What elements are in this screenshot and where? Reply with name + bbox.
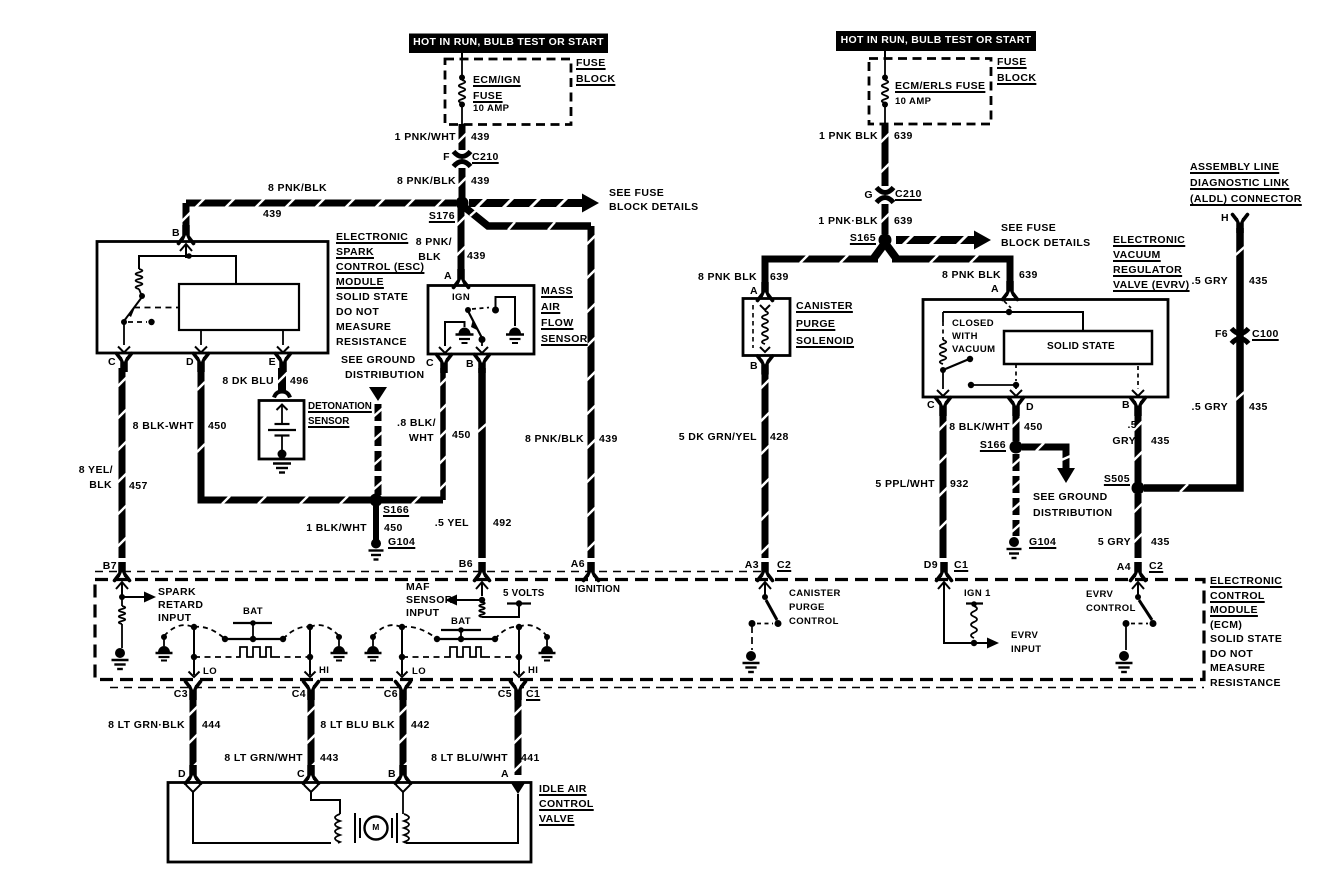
connector C below MAF (437, 355, 452, 374)
wire 8 BLK/WHT 450 from ESC D to S166 (197, 368, 443, 504)
label .5 YEL 492 (435, 518, 469, 530)
label IGN inside MAF (452, 293, 470, 303)
EVRV wire pivot to C pin (942, 372, 944, 389)
wire .5 GRY 435 EVRV B to S505 (1134, 412, 1143, 483)
IAC D entry arrow (186, 785, 200, 792)
wire 8 PNK/BLK 439 ignition vertical to A6 (587, 226, 596, 558)
wire S505 to ALDL connector (1144, 228, 1245, 492)
label 439 below wire (263, 209, 282, 221)
detonation sensor capacitor symbol (277, 405, 288, 411)
label .5 GRY 435 lower aldl (1192, 402, 1228, 414)
EVRV internal entry dash (1004, 301, 1011, 308)
connector A at EVRV (1003, 281, 1018, 300)
ground G104 right (1009, 537, 1019, 547)
see fuse block details arrow left (469, 194, 599, 213)
label G104 right (1029, 537, 1056, 549)
canister purge solenoid coil (760, 305, 770, 310)
see ground distribution branch right (1022, 443, 1071, 468)
group1 LO line (191, 624, 197, 630)
labels C D E under ESC (108, 357, 116, 369)
connector B7 at ECM (115, 562, 130, 581)
label A4 C2 (1117, 562, 1131, 574)
label F6 C100 (1215, 329, 1228, 341)
label B at ESC (172, 228, 180, 240)
ECM winding group1 right ground bell (331, 634, 348, 661)
splice S165 (879, 234, 892, 247)
label G C210 (864, 190, 873, 202)
label SEE FUSE BLOCK DETAILS right (1001, 223, 1056, 235)
label 1 PNK BLK 639 (819, 131, 878, 143)
wire .8 BLK/WHT 450 from MAF C down to S166 run (439, 368, 447, 500)
label 8 PNK BLK 639 canister (698, 272, 757, 284)
label ECM/IGN FUSE 10 AMP (473, 75, 521, 87)
EVRV internal node dot (1006, 309, 1012, 315)
fuse block box left (dashed) (445, 59, 571, 125)
MAF sensor box (428, 286, 534, 355)
IAC motor (365, 817, 388, 840)
ESC internal node dot (186, 253, 192, 259)
label 1 PNK BLK 639 second (818, 216, 878, 228)
power feed banner HOT IN RUN left (409, 34, 608, 54)
connector E below ESC (276, 354, 291, 373)
ESC pin E lead (282, 330, 284, 345)
connector A4 at ECM (1131, 562, 1146, 581)
IAC internal wire D to left coil (193, 792, 331, 843)
ESC internal wire to resistor (139, 256, 189, 269)
ECM A3 entry arrow (759, 582, 771, 596)
see fuse block details arrow right (896, 231, 991, 250)
label CLOSED WITH VACUUM (952, 319, 994, 329)
label SEE GROUND DISTRIBUTION right (1033, 492, 1108, 504)
label H at ALDL (1221, 213, 1229, 225)
label HI group1 (319, 666, 329, 676)
label LO group2 (412, 667, 426, 677)
ground distribution dashed hatched wire to S166 (374, 404, 383, 421)
connector B below MAF (475, 355, 490, 374)
ECM winding group2 right ground bell (539, 634, 556, 661)
label G104 left (388, 537, 415, 549)
label B7 (103, 561, 117, 573)
EVRV internal resistor (940, 340, 946, 364)
group2 BAT tap (460, 630, 462, 639)
IAC A entry arrow (solid) (511, 783, 525, 794)
label D at IAC (178, 769, 186, 781)
label B at IAC (388, 769, 396, 781)
ECM winding group2 left ground bell (365, 634, 382, 661)
wire 1 PNK BLK 639 below fuse (881, 124, 890, 186)
group2 LO line (399, 624, 405, 630)
wire 8 LT BLU BLK 442 C6 to IAC B (399, 697, 408, 772)
see ground distribution triangle arrow (left) (369, 387, 387, 401)
group2 arc right (519, 625, 547, 636)
wire 8 PNK BLK 639 to EVRV (892, 255, 1010, 285)
EVRV control switch arm (1139, 600, 1152, 620)
label 8 BLK-WHT 450 (133, 421, 194, 433)
label 5 PPL/WHT 932 (875, 479, 935, 491)
EVRV internal D leg dashed (1015, 364, 1017, 381)
label 1 BLK/WHT 450 (306, 523, 367, 535)
splice S166 left (370, 494, 383, 507)
group1 arc from bat bar right (283, 627, 310, 639)
ground G104 left (371, 539, 381, 549)
wire 1 BLK/WHT 450 S166 to G104 (373, 503, 379, 540)
IAC motor brushes right (391, 818, 393, 838)
connector C4 below ECM (304, 682, 319, 701)
label 1 PNK/WHT 439 (395, 132, 456, 144)
connector B below EVRV (1131, 398, 1146, 417)
label A at IAC (501, 769, 509, 781)
label C3 (174, 689, 188, 701)
label 8 PNK/BLK above wire (268, 183, 327, 195)
label FUSE BLOCK right (997, 57, 1027, 69)
label C6 (384, 689, 398, 701)
connector cup at detonation sensor (274, 392, 290, 398)
connector C5 below ECM (511, 682, 526, 701)
label FUSE BLOCK left (576, 58, 606, 70)
connector C210 left (F) (454, 152, 471, 167)
ESC module box (97, 242, 328, 354)
ALDL name text (1190, 162, 1279, 174)
wire banner to fuse block (461, 53, 463, 60)
ECM D9 lead to EVRV input (944, 594, 990, 643)
label BAT group1 (243, 607, 263, 617)
IAC motor brushes left (354, 813, 356, 843)
connector B at ESC module (179, 225, 194, 244)
label 8 LT BLU BLK 442 (320, 720, 395, 732)
ECM A4 entry arrow (1132, 582, 1144, 596)
Y split wires from S165 (874, 243, 885, 258)
label 5 GRY 435 (1098, 537, 1131, 549)
connector D below ESC (194, 354, 209, 373)
wire corner into ESC B (182, 203, 191, 226)
group1 HI line (307, 624, 313, 630)
label C4 (292, 689, 306, 701)
canister purge control switch arm (766, 600, 777, 620)
ESC switch arm (124, 297, 142, 321)
group1 dashed winding line with pulse (194, 656, 236, 658)
label IGNITION (575, 585, 620, 596)
labels C B under MAF (426, 358, 434, 370)
ECM D9 entry arrow (938, 582, 950, 596)
label SOLID STATE inside EVRV (1047, 341, 1115, 352)
IAC internal wire C to left coil top (311, 792, 340, 814)
canister purge control ground lead (751, 626, 753, 650)
splice S166 right (1010, 441, 1023, 454)
label .5 GRY 435 upper aldl (1192, 276, 1228, 288)
wire 8 PNK/BLK 439 to ESC module (horizontal) (186, 199, 456, 208)
label HI group2 (528, 666, 538, 676)
wire 1 PNK/WHT 439 (458, 124, 467, 150)
splice S176 (456, 197, 469, 210)
wire 8 LT GRN/WHT 443 C4 to IAC C (307, 697, 316, 772)
ECM winding group1 left ground bell (156, 634, 173, 661)
connector C100 (F6) (1232, 329, 1249, 344)
wire 8 LT BLU/WHT 441 C5 to IAC A (514, 697, 523, 775)
ESC solid state inner box (179, 284, 299, 330)
connector C3 below ECM (186, 682, 201, 701)
label 8 YEL/BLK 457 (79, 465, 113, 477)
label 8 PNK/BLK 439 (397, 176, 456, 188)
IAC internal wire A to right coil (406, 794, 518, 843)
label MAF SENSOR INPUT (406, 582, 430, 594)
label 8 PNK/BLK 439 ignition wire (525, 434, 584, 446)
EVRV name text (1113, 235, 1185, 247)
detonation sensor ground (273, 462, 291, 464)
label 8 BLK/WHT 450 right (949, 422, 1010, 434)
ECM box dashed border (95, 580, 1204, 680)
label 8 LT GRN/WHT 443 (224, 753, 303, 765)
label D9 C1 (924, 560, 938, 572)
MAF internal switch pivot dot (465, 307, 471, 313)
fuse ECM/ERLS symbol (884, 59, 886, 75)
IAC valve box (168, 783, 531, 863)
label ECM/ERLS FUSE 10 AMP (895, 81, 985, 93)
label BAT group2 (451, 617, 471, 627)
label 8 PNK/ BLK 439 to MAF (416, 237, 452, 249)
label CANISTER PURGE SOLENOID (796, 301, 853, 313)
banner text right (841, 35, 1032, 47)
connector A6 at ECM (584, 562, 599, 581)
canister purge solenoid box (743, 299, 790, 356)
EVRV internal left leg (942, 312, 944, 322)
ESC switch fixed contact (128, 321, 147, 323)
label A at canister purge (750, 286, 758, 298)
connector B below canister purge (758, 356, 773, 375)
connector C below EVRV (936, 398, 951, 417)
EVRV internal B leg dashed (1137, 366, 1139, 389)
group1 bat bar line (225, 638, 283, 640)
ESC internal entry arrow (180, 244, 192, 258)
label A at EVRV (991, 284, 999, 296)
wire .5 YEL 492 MAF B to ECM B6 (478, 368, 486, 558)
wire 5 PPL/WHT 932 EVRV C to ECM D9 (939, 412, 948, 558)
ESC resistor bottom dot (139, 293, 145, 299)
IAC internal wire B to right coil (402, 792, 404, 814)
canister purge solenoid plunger dashed (752, 305, 754, 348)
ESC switch dashed actuator line (134, 307, 178, 309)
ALDL connector H (1233, 215, 1248, 234)
ECM name text block (1210, 576, 1282, 588)
group1 BAT tap (252, 623, 254, 639)
ESC pin D lead (200, 330, 202, 345)
connector C6 below ECM (396, 682, 411, 701)
label F C210 (443, 152, 450, 164)
wire 8 BLK/WHT 450 EVRV D to S166 (1012, 412, 1021, 441)
connector C210 right (G) (877, 188, 894, 203)
connector B6 at ECM (475, 562, 490, 581)
label SEE GROUND DISTRIBUTION left (341, 355, 416, 367)
wire 8 PNK/BLK 439 below C210 (458, 168, 467, 198)
wire banner to fuse block right (884, 51, 886, 59)
MAF internal right contact dot (492, 307, 499, 314)
resistor in ESC (136, 269, 143, 289)
wire 5 GRY 435 S505 to ECM A4 (1134, 494, 1143, 558)
group2 arc left (373, 625, 401, 636)
fuse ECM/IGN symbol (461, 60, 463, 75)
label B6 (459, 559, 473, 571)
canister purge control dashed link (757, 623, 773, 625)
label A at MAF (444, 271, 452, 283)
connector A at MAF sensor (454, 269, 469, 288)
wire 8 LT GRN/BLK 444 C3 to IAC D (189, 697, 198, 772)
EVRV SOLID STATE box (1004, 331, 1152, 364)
connector C below ESC (117, 354, 132, 373)
group1 arc right (310, 625, 339, 636)
group1 arc to bat bar (194, 627, 225, 639)
label S166 left (383, 505, 409, 517)
label S165 (850, 233, 876, 245)
ECM B7 resistor (121, 599, 123, 606)
ESC switch pivot dot (121, 319, 127, 325)
MAF left ground bell (456, 328, 474, 344)
labels C D B under EVRV (927, 400, 935, 412)
ESC wire node to inner box (189, 256, 236, 284)
label .5 GRY 435 evrv (1127, 420, 1137, 432)
detonation sensor box (259, 401, 304, 460)
label DETONATION SENSOR (308, 402, 372, 413)
wire S166 to G104 right (dashed thick) (1012, 454, 1021, 471)
ECM MAF sensor input arrow (455, 599, 482, 601)
wire diagonal from S176 to A6 branch (462, 205, 591, 230)
wire 1 PNK BLK 639 below C210 right (881, 204, 890, 234)
EVRV control ground lead (1125, 626, 1127, 650)
label B at canister purge (750, 361, 758, 373)
label IGN 1 (964, 589, 991, 599)
group2 arc from bat bar right (495, 627, 519, 639)
label 5 VOLTS (503, 589, 545, 600)
label 8 LT GRN-BLK 444 (108, 720, 185, 732)
power feed banner HOT IN RUN right (836, 31, 1036, 51)
label SEE FUSE BLOCK DETAILS left (609, 188, 664, 200)
IAC left coil (335, 814, 340, 843)
MAF sensor name text (541, 286, 573, 298)
label S176 (429, 211, 455, 223)
label LO group1 (203, 667, 217, 677)
banner text left (413, 37, 604, 49)
label C5 C1 (498, 689, 512, 701)
label 5 DK GRN/YEL 428 (679, 432, 757, 444)
MAF internal lower dot to B pin (479, 336, 486, 343)
ESC wire pivot to C pin (123, 324, 125, 345)
label EVRV INPUT (1011, 631, 1038, 641)
EVRV control dashed link (1131, 623, 1148, 625)
wire 5 DK GRN/YEL 428 to ECM A3 (761, 370, 770, 558)
wire 8 PNK BLK 639 to canister purge solenoid (765, 255, 878, 286)
MAF right ground bell (506, 328, 524, 344)
group1 arc left (164, 625, 193, 636)
ECM 5 volts branch (479, 602, 485, 617)
wire 8 DK BLU 496 from ESC E to detonation sensor (277, 368, 287, 392)
ECM connector row thin dashed line top (95, 571, 765, 573)
group2 HI line (516, 624, 522, 630)
splice S505 (1132, 482, 1145, 495)
IAC C entry arrow (304, 785, 318, 792)
MAF internal left circuit to C pin (445, 322, 465, 346)
wire 8 PNK/BLK down from S176 to MAF A (457, 207, 466, 272)
label S166 right (980, 440, 1006, 452)
EVRV internal switch arm (943, 360, 968, 371)
EVRV internal top rail (943, 312, 1083, 331)
connector D below EVRV (1009, 398, 1024, 417)
label CANISTER PURGE CONTROL (789, 589, 841, 599)
ESC module name text block (336, 232, 408, 244)
label C at IAC (297, 769, 305, 781)
label A3 C2 (745, 560, 759, 572)
label 8 DK BLU 496 (222, 376, 274, 388)
label A6 (571, 559, 585, 571)
label M motor (372, 823, 379, 832)
ECM B7 ground (115, 648, 125, 658)
IAC right coil (404, 814, 409, 843)
EVRV box (923, 300, 1168, 398)
group2 bat bar line (437, 638, 495, 640)
MAF internal dashed link (472, 308, 489, 310)
IAC valve name text (539, 784, 587, 796)
fuse block box right (dashed) (869, 59, 991, 125)
ECM IGN1 resistor (966, 602, 983, 604)
ECM B6 entry arrow (476, 582, 488, 596)
label 8 PNK BLK 639 evrv (942, 270, 1001, 282)
label EVRV CONTROL (1086, 590, 1113, 600)
wire 8 YEL/BLK 457 from ESC C to ECM B7 (118, 368, 127, 558)
IAC B entry arrow (396, 785, 410, 792)
label 8 LT BLU/WHT 441 (431, 753, 508, 765)
label SPARK RETARD INPUT (158, 587, 196, 599)
ECM B7 entry arrow (116, 582, 128, 596)
ECM spark retard output arrow (122, 596, 147, 598)
MAF internal switch arm (468, 311, 482, 338)
label S505 (1104, 474, 1130, 486)
connector D9 at ECM (937, 562, 952, 581)
label .8 BLK/ WHT 450 maf (397, 418, 436, 430)
connector A at canister purge solenoid (758, 282, 773, 301)
EVRV internal pivot dot (940, 367, 946, 373)
group2 arc to bat bar (402, 627, 437, 639)
connector A3 at ECM (758, 562, 773, 581)
ECM connector row thin dashed line bottom (110, 687, 1204, 689)
MAF internal wire right contact to ground (496, 297, 516, 326)
group2 dashed winding line with pulse (402, 656, 446, 658)
